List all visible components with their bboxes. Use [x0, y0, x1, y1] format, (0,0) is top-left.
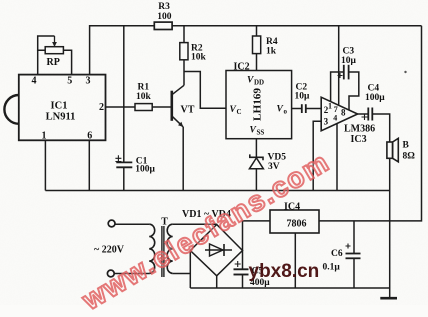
svg-text:C: C — [237, 108, 242, 116]
label C5 — [250, 266, 270, 288]
resistor R4 — [253, 36, 261, 54]
capacitor C3 — [343, 65, 345, 80]
svg-text:7806: 7806 — [287, 219, 307, 230]
wiper arrow RP — [54, 36, 56, 43]
label R4 — [266, 37, 278, 57]
capacitor C2 — [301, 104, 303, 113]
wire bottom rail — [190, 287, 389, 289]
svg-text:4: 4 — [333, 114, 337, 123]
wire R1 to VT base — [152, 106, 172, 108]
capacitor C4 — [367, 108, 369, 121]
label RP — [47, 57, 60, 68]
svg-text:R3: R3 — [158, 2, 170, 12]
watermark elecfans — [77, 146, 336, 317]
label C4 — [365, 84, 385, 104]
wire RP right terminal to pin5 — [63, 50, 71, 74]
label R1 — [136, 83, 152, 103]
wire bridge right corner to C5 — [242, 251, 244, 270]
labels IC1 — [32, 75, 105, 141]
wire top supply rail left segment — [90, 26, 155, 75]
wire supply to op-amp top — [338, 26, 340, 106]
wire IC1 pin1 to ground rail — [44, 140, 46, 190]
label C2 — [295, 83, 311, 102]
diode inside bridge — [205, 249, 232, 251]
svg-text:3: 3 — [86, 75, 91, 86]
wire amp ground rail — [45, 190, 389, 192]
IC4 7806 box — [270, 210, 319, 233]
speaker B — [387, 142, 393, 158]
ground — [380, 297, 397, 300]
wire terminal bottom to transformer — [114, 273, 149, 275]
svg-text:RP: RP — [47, 57, 60, 68]
svg-text:V: V — [247, 76, 254, 86]
wire VT collector branch to IC2 VC — [184, 72, 226, 109]
wire right supply rail — [319, 26, 422, 221]
svg-text:R1: R1 — [138, 83, 150, 93]
wire op-amp pin3 to ground — [313, 121, 321, 190]
svg-text:LM386: LM386 — [344, 124, 375, 135]
wire RP left terminal to pin4 — [37, 50, 39, 74]
svg-text:C4: C4 — [368, 84, 380, 94]
node AC terminal top — [108, 220, 115, 227]
label C6 — [323, 249, 343, 273]
svg-text:B: B — [403, 141, 410, 151]
svg-text:DD: DD — [254, 79, 264, 87]
svg-text:IC2: IC2 — [234, 62, 250, 73]
wire secondary top to bridge — [173, 223, 217, 225]
label T — [161, 217, 168, 228]
resistor R1 — [135, 104, 152, 111]
svg-text:V: V — [250, 126, 257, 136]
transformer T primary winding — [149, 224, 155, 273]
wire IC2 Vo to C2 — [292, 108, 302, 110]
mic semicircle of IC1 — [4, 95, 18, 124]
svg-text:VD5: VD5 — [268, 153, 287, 163]
svg-text:1: 1 — [328, 102, 332, 111]
svg-text:VT: VT — [181, 105, 195, 116]
wire IC2 VDD to R4 — [256, 54, 258, 71]
wire bridge right corner to 7806 input — [243, 221, 271, 251]
svg-text:o: o — [284, 108, 288, 116]
wire 7806 output junction to C6 — [353, 221, 355, 253]
label R2 — [191, 44, 207, 63]
labels LM386 pins — [324, 102, 376, 146]
svg-text:C6: C6 — [331, 249, 343, 259]
resistor R2 — [180, 43, 188, 60]
svg-text:~ 220V: ~ 220V — [94, 245, 125, 256]
wire speaker to ground bar — [389, 158, 391, 297]
label VD1-VD4 — [182, 209, 231, 220]
label 220V — [94, 245, 125, 256]
wire bridge left corner column to bottom rail — [189, 251, 191, 289]
op-amp IC1 LN911 box — [19, 75, 106, 141]
label R3 — [157, 2, 172, 22]
svg-text:IC4: IC4 — [284, 202, 300, 213]
label C3 — [341, 47, 357, 67]
svg-text:100μ: 100μ — [365, 93, 385, 103]
svg-text:6: 6 — [87, 131, 92, 142]
svg-text:10μ: 10μ — [295, 92, 311, 102]
capacitor C1 — [116, 161, 132, 163]
wire RP wiper loop — [38, 36, 55, 50]
wire IC1 pin2 to R1 — [106, 106, 136, 108]
wire C4 to speaker — [372, 114, 389, 142]
wire op-amp pin1 stub to C3 — [331, 72, 344, 102]
svg-text:8: 8 — [341, 108, 346, 118]
transformer T core — [161, 226, 163, 277]
zener diode VD5 — [250, 154, 263, 160]
svg-text:C3: C3 — [343, 47, 355, 57]
svg-text:1: 1 — [42, 131, 47, 142]
wire VT emitter to ground rail — [182, 127, 184, 191]
wire bridge bottom corner to bottom rail — [216, 276, 218, 288]
label VD5 — [268, 153, 287, 173]
svg-text:R4: R4 — [266, 37, 278, 47]
wire C3 to op-amp pin8 — [349, 72, 359, 110]
svg-text:2: 2 — [99, 102, 104, 113]
node AC terminal bottom — [107, 270, 114, 277]
label speaker B 8ohm — [403, 141, 416, 162]
transistor VT — [171, 91, 174, 121]
potentiometer RP — [45, 47, 63, 54]
op-amp U3 LM386 triangle — [321, 97, 357, 131]
wire secondary bottom to bridge column — [173, 273, 191, 275]
svg-text:IC1: IC1 — [51, 101, 68, 112]
wire terminal top to transformer — [115, 223, 149, 225]
svg-text:0.1μ: 0.1μ — [323, 263, 341, 273]
capacitor C5 — [234, 268, 249, 270]
wire top supply rail right segment — [172, 25, 421, 27]
svg-text:LH169: LH169 — [253, 88, 264, 121]
svg-text:5: 5 — [67, 75, 72, 86]
svg-text:1k: 1k — [266, 47, 277, 57]
capacitor C6 — [346, 253, 361, 255]
wire IC1 pin6 to ground rail — [88, 140, 90, 190]
wire C2 to op-amp pin2 — [306, 108, 321, 110]
svg-text:100: 100 — [157, 12, 172, 22]
svg-text:LN911: LN911 — [46, 112, 76, 123]
svg-text:T: T — [161, 217, 168, 228]
node speck mark — [404, 71, 406, 73]
wire 7806 ground pin to bottom rail — [294, 233, 296, 288]
wire op-amp pin4 to ground — [336, 123, 338, 190]
resistor R3 — [154, 22, 172, 29]
svg-text:10μ: 10μ — [341, 56, 357, 66]
svg-text:SS: SS — [257, 129, 265, 137]
watermark ybx8 — [249, 261, 320, 283]
labels IC2 — [230, 62, 288, 137]
svg-text:10k: 10k — [191, 53, 207, 63]
transformer T secondary winding — [167, 224, 173, 273]
svg-text:V: V — [277, 105, 284, 115]
svg-text:10k: 10k — [136, 92, 152, 102]
svg-text:4: 4 — [32, 75, 37, 86]
svg-text:V: V — [230, 105, 237, 115]
svg-text:8Ω: 8Ω — [403, 152, 416, 162]
svg-text:100μ: 100μ — [135, 164, 155, 174]
label IC4 7806 — [284, 202, 307, 230]
label C1 — [135, 156, 155, 174]
wire IC2 VSS to VD5 — [255, 139, 257, 158]
wire op-amp output to C4 — [358, 113, 369, 115]
wire C1 decoupling column — [123, 26, 125, 162]
wire VT collector up to R2 — [183, 60, 185, 86]
svg-text:3: 3 — [324, 116, 329, 126]
svg-text:IC3: IC3 — [351, 134, 367, 145]
bridge rectifier VD1-VD4 — [190, 225, 242, 276]
IC U2 LH169 box — [226, 71, 292, 139]
